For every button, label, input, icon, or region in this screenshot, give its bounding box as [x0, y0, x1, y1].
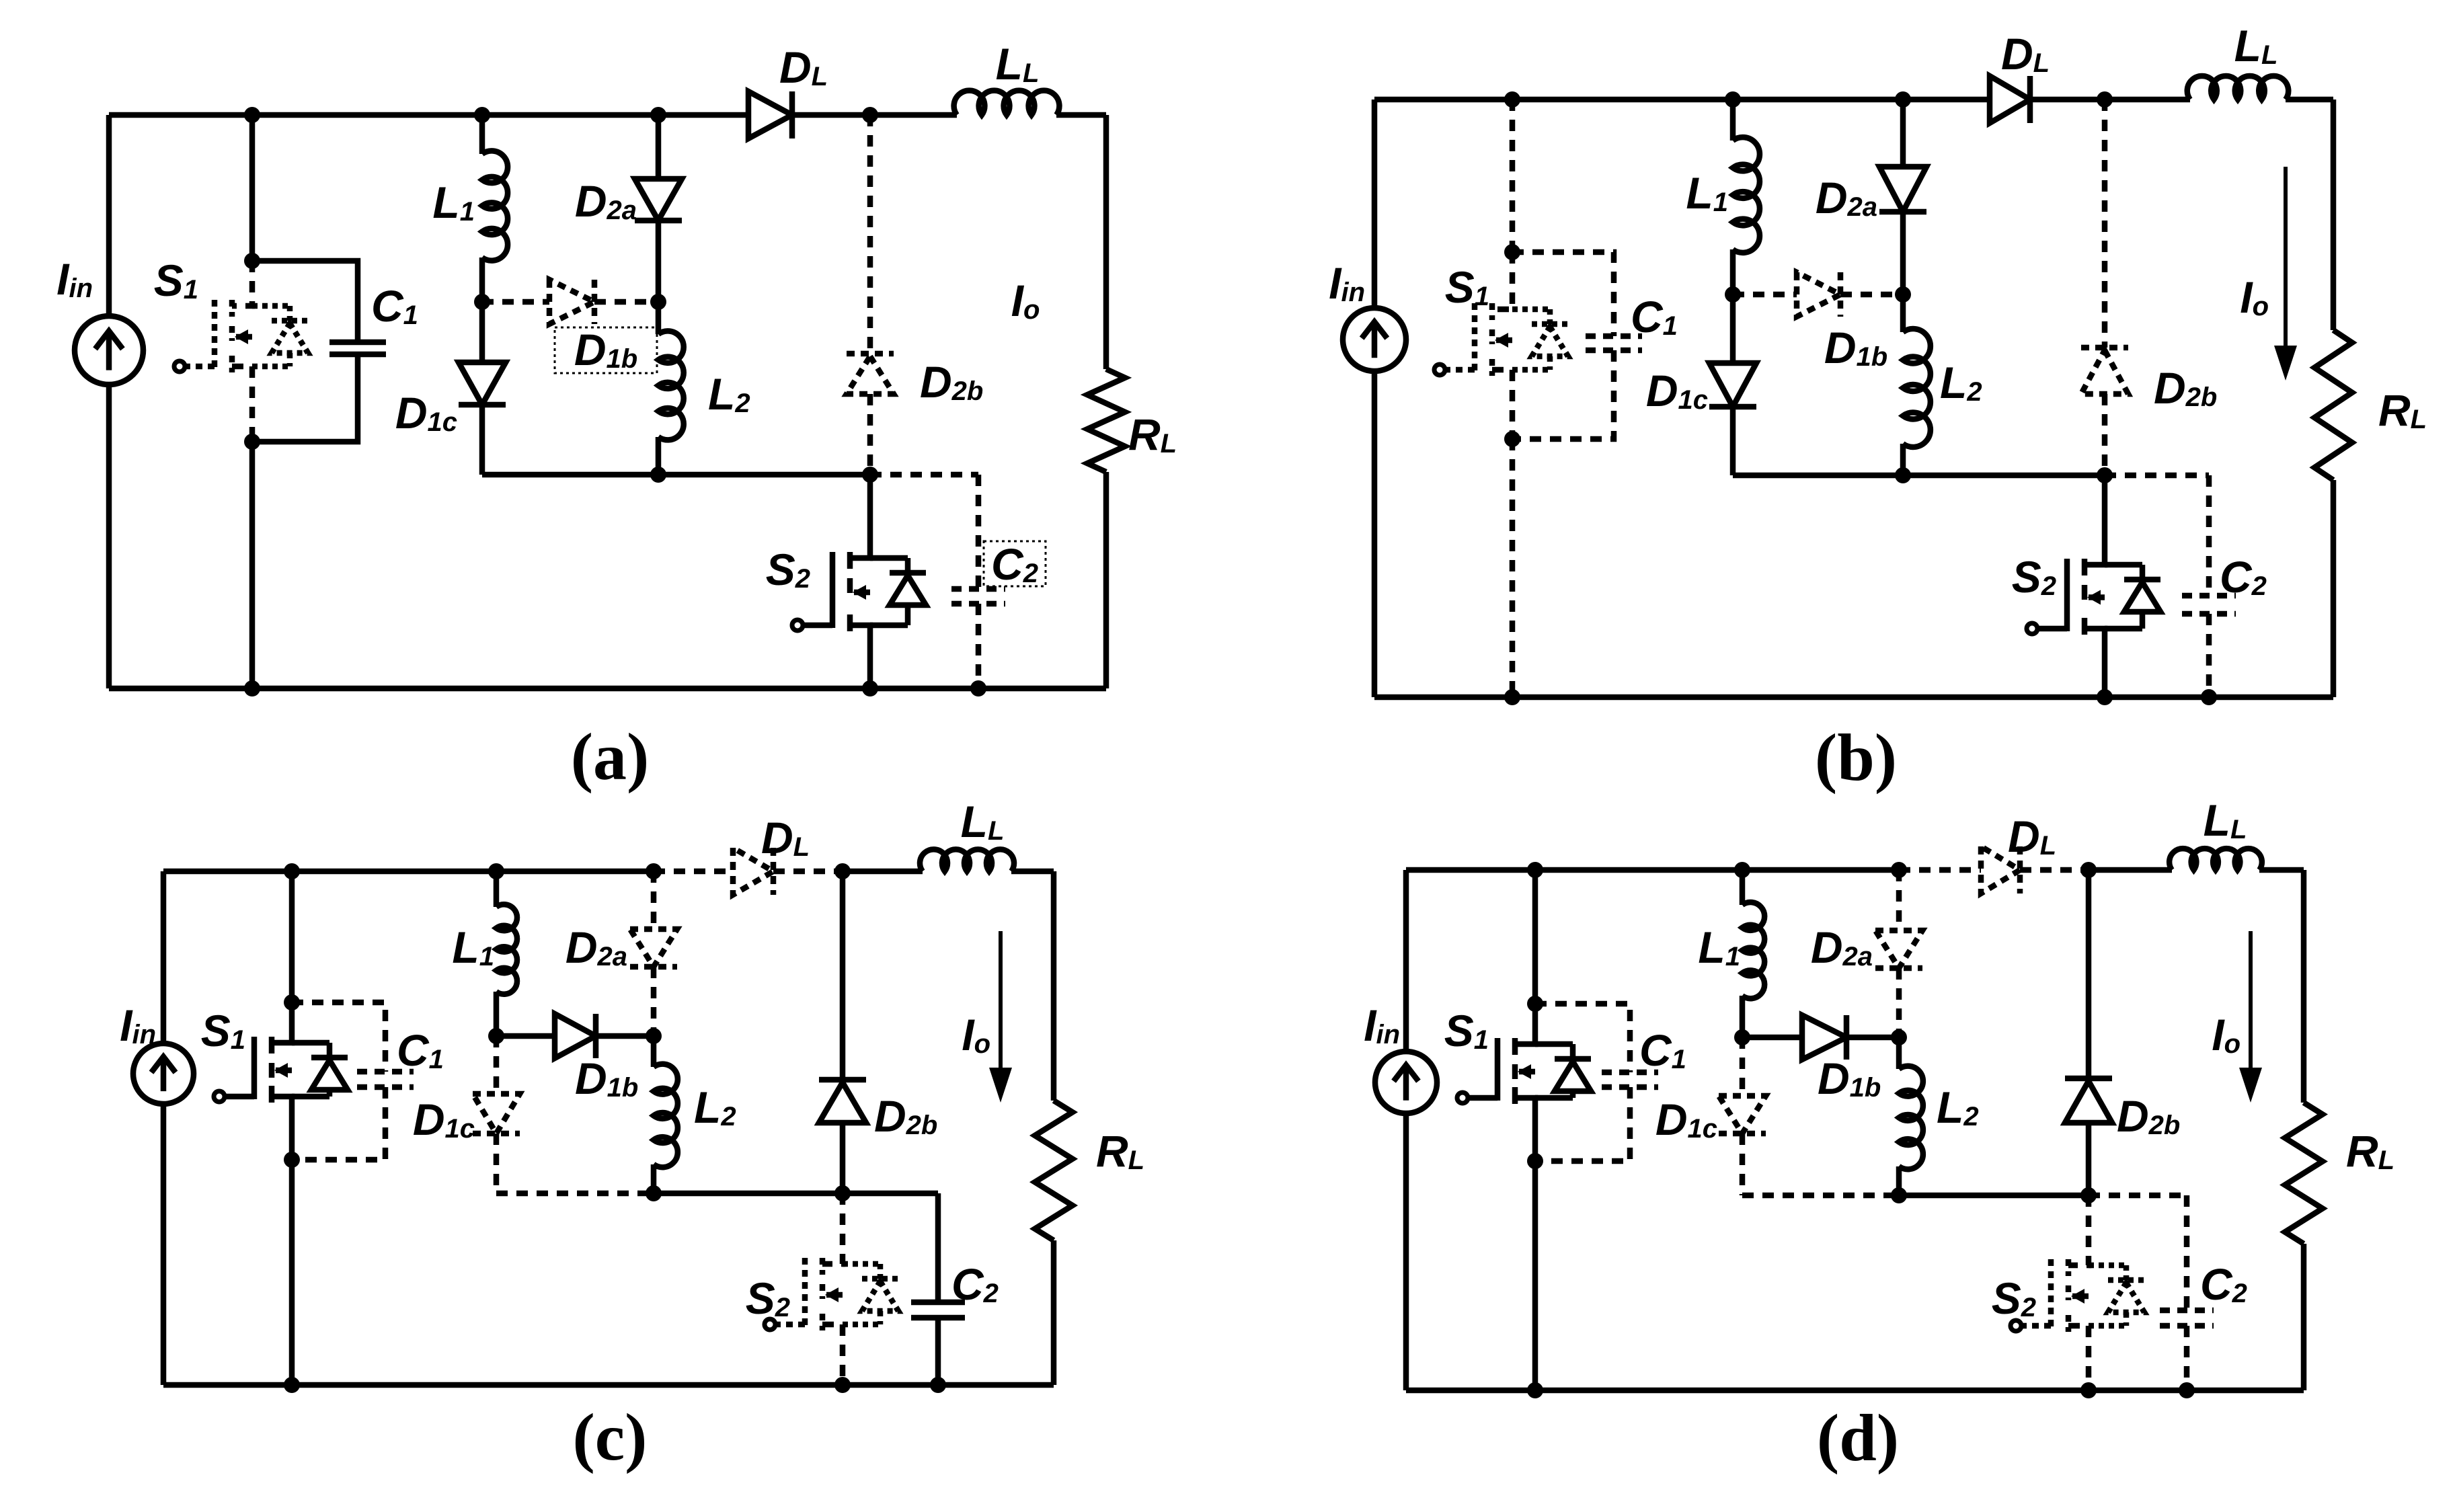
node bottom S2 (b) — [2097, 689, 2113, 705]
node top S1 (c) — [284, 863, 300, 879]
capacitor C2 (d) — [2184, 1195, 2190, 1310]
wire C1 top (c) — [292, 1002, 385, 1072]
node S1 drain (b) — [1504, 244, 1520, 260]
wire bottom rail (a) — [109, 686, 1106, 692]
wire DL to node (b) — [2030, 97, 2105, 103]
wire right rail upper (a) — [1103, 115, 1109, 369]
capacitor C1 (a) — [329, 340, 386, 346]
svg-text:(d): (d) — [1817, 1400, 1899, 1475]
current source Iin (a) — [106, 115, 112, 316]
node L2 bottom (d) — [1891, 1187, 1907, 1203]
node top D2a (a) — [650, 107, 666, 123]
node L2 bottom (a) — [650, 467, 666, 483]
wire LL to right corner (d) — [2259, 867, 2304, 873]
diode D2b (c) — [840, 871, 846, 1080]
inductor L2 (a) — [656, 302, 662, 334]
diode D2a (a) — [656, 115, 662, 179]
diode D1c (a) — [479, 302, 485, 362]
wire top rail (d) — [1406, 867, 1899, 873]
diode D1b (c) — [496, 1033, 555, 1039]
diode D2a (b) — [1900, 100, 1906, 167]
inductor L1 (d) — [1740, 870, 1746, 905]
diode D1b (a) — [482, 299, 549, 305]
wire C1 bottom (c) — [292, 1087, 385, 1160]
node bottom S1 (c) — [284, 1377, 300, 1393]
wire S1 drain branch (b) — [1510, 100, 1516, 252]
transistor S2 (b) — [2084, 475, 2105, 565]
svg-text:(c): (c) — [573, 1400, 648, 1474]
resistor RL (c) — [1035, 1101, 1073, 1240]
wire S1 source branch (b) — [1510, 439, 1516, 697]
wire mid rail left (b) — [1733, 473, 1903, 479]
node S2 drain (a) — [862, 467, 878, 483]
diode DL (a) — [748, 91, 792, 138]
wire top rail to DL (a) — [658, 112, 748, 118]
diode D2b (b) — [2102, 100, 2108, 348]
transistor S2 (d) — [2068, 1195, 2089, 1265]
capacitor C1 (d) — [1602, 1070, 1658, 1076]
wire S1 source branch (a) — [249, 442, 256, 688]
wire mid rail right (a) — [658, 472, 870, 478]
inductor L1 (a) — [479, 115, 485, 154]
node DL output (b) — [2097, 91, 2113, 108]
diode D1b (b) — [1733, 292, 1797, 298]
wire DL to node (d) — [2020, 867, 2089, 873]
inductor L2 (d) — [1896, 1037, 1902, 1069]
label box D1b (a) — [555, 327, 657, 373]
wire LL to right corner (a) — [1056, 112, 1106, 118]
node top S1 (b) — [1504, 91, 1520, 108]
node bottom C2 (c) — [930, 1377, 946, 1393]
capacitor C2 (b) — [2206, 475, 2212, 596]
wire C1 bottom (d) — [1535, 1087, 1630, 1161]
wire C1 top (d) — [1535, 1004, 1630, 1072]
wire right rail lower (d) — [2301, 1244, 2307, 1390]
svg-text:(b): (b) — [1815, 720, 1897, 795]
node L2 top (d) — [1891, 1029, 1907, 1045]
resistor RL (d) — [2285, 1103, 2323, 1244]
wire top rail (c) — [163, 869, 654, 875]
inductor LL (a) — [954, 91, 1060, 115]
wire top rail (a) — [109, 112, 658, 118]
wire node to LL (d) — [2089, 867, 2172, 873]
node L1 bottom (b) — [1725, 286, 1741, 303]
node bottom S2 (a) — [862, 680, 878, 697]
inductor LL (c) — [920, 849, 1014, 871]
node top S1 (a) — [244, 107, 260, 123]
node S2 drain (d) — [2080, 1187, 2097, 1203]
wire mid rail right (b) — [1903, 473, 2105, 479]
arrow Io output current (d) — [2249, 931, 2253, 1076]
transistor S1 (c) — [272, 1002, 292, 1043]
wire mid rail left (a) — [482, 472, 658, 478]
node S1 source (a) — [244, 434, 260, 450]
wire right rail upper (b) — [2331, 100, 2337, 330]
diode D2a (d) — [1896, 870, 1902, 930]
node L2 top (b) — [1895, 286, 1911, 303]
transistor S1 (d) — [1515, 1004, 1535, 1044]
current source Iin (c) — [161, 871, 167, 1043]
node top L1 (c) — [488, 863, 504, 879]
diode DL (c) — [733, 848, 773, 895]
node L2 top (a) — [650, 294, 666, 310]
diode D1c (d) — [1740, 1037, 1746, 1096]
node S1 source (d) — [1527, 1153, 1543, 1169]
node L2 bottom (c) — [646, 1185, 662, 1201]
node top L1 (b) — [1725, 91, 1741, 108]
inductor L2 (c) — [651, 1036, 657, 1067]
inductor L1 (b) — [1730, 100, 1736, 141]
node S2 drain (b) — [2097, 467, 2113, 483]
wire right rail upper (c) — [1051, 871, 1057, 1101]
inductor L1 (c) — [494, 871, 500, 907]
diode D2b (d) — [2086, 870, 2092, 1078]
diode DL (d) — [1981, 846, 2020, 893]
diode D2b (a) — [867, 115, 873, 354]
node top D2a (d) — [1891, 862, 1907, 878]
capacitor C1 (c) — [357, 1069, 414, 1075]
wire mid to C2 (a) — [870, 472, 978, 478]
inductor L2 (b) — [1900, 294, 1906, 332]
wire mid rail right (c) — [654, 1191, 843, 1197]
node DL output (c) — [834, 863, 851, 879]
arrow Io output current (b) — [2284, 167, 2288, 354]
transistor S1 (a) — [232, 261, 252, 306]
node bottom S2 (d) — [2080, 1382, 2097, 1398]
wire LL to right corner (b) — [2286, 97, 2333, 103]
node S1 source (c) — [284, 1152, 300, 1168]
node bottom S1 (b) — [1504, 689, 1520, 705]
label box C2 (a) — [984, 541, 1046, 586]
wire S1 drain branch (a) — [249, 115, 256, 261]
node S2 drain (c) — [834, 1185, 851, 1201]
wire node to LL (a) — [870, 112, 957, 118]
capacitor C2 (a) — [976, 475, 982, 589]
wire C1 top (b) — [1512, 252, 1614, 336]
transistor S2 (c) — [822, 1193, 843, 1264]
node S1 drain (c) — [284, 994, 300, 1010]
wire node to LL (b) — [2105, 97, 2190, 103]
node bottom S2 (c) — [834, 1377, 851, 1393]
wire mid to C2 (b) — [2105, 473, 2209, 479]
wire top rail to DL (b) — [1903, 97, 1990, 103]
node bottom S1 (a) — [244, 680, 260, 697]
node L1 bottom (c) — [488, 1028, 504, 1044]
wire LL to right corner (c) — [1011, 869, 1054, 875]
node top L1 (a) — [474, 107, 490, 123]
wire mid to C2 (c) — [843, 1191, 938, 1197]
wire bottom rail (c) — [163, 1382, 1054, 1388]
inductor LL (d) — [2169, 848, 2262, 870]
svg-text:(a): (a) — [571, 719, 650, 794]
capacitor C2 (c) — [935, 1193, 941, 1302]
node L2 bottom (b) — [1895, 467, 1911, 483]
wire top rail to DL (c) — [654, 869, 733, 875]
node L2 top (c) — [646, 1028, 662, 1044]
wire right rail lower (b) — [2331, 480, 2337, 697]
wire mid rail left (d) — [1742, 1193, 1899, 1199]
wire right rail lower (c) — [1051, 1240, 1057, 1385]
node S1 drain (a) — [244, 253, 260, 269]
transistor S1 (b) — [1492, 252, 1512, 309]
node top L1 (d) — [1734, 862, 1750, 878]
node DL output (d) — [2080, 862, 2097, 878]
wire C1 top (a) — [252, 261, 358, 342]
node bottom S1 (d) — [1527, 1382, 1543, 1398]
node top S1 (d) — [1527, 862, 1543, 878]
wire bottom rail (b) — [1374, 694, 2333, 701]
diode D1c (c) — [494, 1036, 500, 1094]
wire S1 drain branch (d) — [1532, 870, 1538, 1004]
wire top rail (b) — [1374, 97, 1903, 103]
wire mid rail left (c) — [496, 1191, 654, 1197]
wire S1 source branch (c) — [289, 1160, 295, 1385]
node L1 bottom (d) — [1734, 1029, 1750, 1045]
wire mid rail right (d) — [1899, 1193, 2089, 1199]
node top D2a (c) — [646, 863, 662, 879]
resistor RL (a) — [1087, 369, 1125, 472]
diode D1c (b) — [1730, 294, 1736, 363]
node bottom C2 (b) — [2201, 689, 2217, 705]
diode D2a (c) — [651, 871, 657, 929]
arrow Io output current (c) — [999, 931, 1003, 1076]
diode DL (b) — [1990, 76, 2030, 123]
node bottom C2 (d) — [2179, 1382, 2195, 1398]
inductor LL (b) — [2187, 76, 2289, 100]
node S1 source (b) — [1504, 431, 1520, 447]
wire right rail upper (d) — [2301, 870, 2307, 1103]
wire bottom rail (d) — [1406, 1388, 2304, 1394]
wire DL to node (a) — [792, 112, 870, 118]
wire S1 source branch (d) — [1532, 1161, 1538, 1390]
node bottom C2 (a) — [970, 680, 986, 697]
wire C1 bottom (b) — [1512, 350, 1614, 439]
node top D2a (b) — [1895, 91, 1911, 108]
wire mid to C2 (d) — [2089, 1193, 2187, 1199]
resistor RL (b) — [2314, 330, 2352, 480]
current source Iin (b) — [1372, 100, 1378, 308]
node S1 drain (d) — [1527, 996, 1543, 1012]
wire DL to node (c) — [773, 869, 843, 875]
capacitor C1 (b) — [1586, 333, 1642, 340]
node L1 bottom (a) — [474, 294, 490, 310]
transistor S2 (a) — [850, 475, 870, 558]
diode D1b (d) — [1742, 1035, 1802, 1041]
current source Iin (d) — [1403, 870, 1409, 1051]
wire top rail to DL (d) — [1899, 867, 1981, 873]
wire node to LL (c) — [843, 869, 923, 875]
wire S1 drain branch (c) — [289, 871, 295, 1002]
node DL output (a) — [862, 107, 878, 123]
wire right rail lower (a) — [1103, 472, 1109, 688]
wire C1 bottom (a) — [252, 354, 358, 442]
